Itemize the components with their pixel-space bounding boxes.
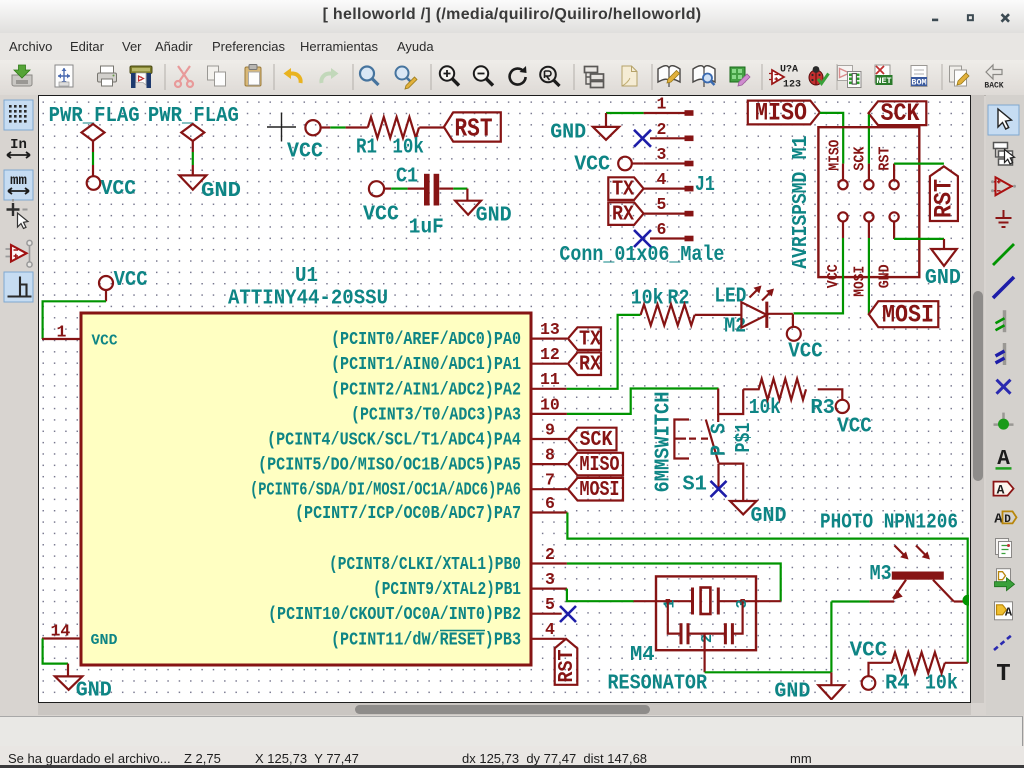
svg-text:2: 2 <box>545 545 555 564</box>
svg-text:5: 5 <box>545 595 555 614</box>
power port VCC (U1 pin 1) <box>99 269 148 301</box>
wire VCC to R1 <box>321 126 331 128</box>
svg-text:5: 5 <box>657 195 667 214</box>
svg-text:10k: 10k <box>749 397 781 420</box>
power port GND (J1 pin 1) <box>550 113 619 145</box>
U1 pin 12 PA1 <box>331 345 567 375</box>
global label SCK (U1 pin 9) <box>568 428 617 452</box>
wire (PWR_FLAG to GND) <box>192 152 194 165</box>
svg-text:4: 4 <box>657 170 667 189</box>
status bar <box>0 746 1024 765</box>
svg-text:VCC: VCC <box>101 178 137 201</box>
svg-text:10k: 10k <box>392 137 424 160</box>
wire R3 to VCC <box>818 389 843 400</box>
resonator M4 <box>608 576 757 695</box>
M1 pin VCC (bottom row) <box>825 212 848 288</box>
wire SCK label to M1 <box>868 115 870 164</box>
global label RST (U1 pin 4, vertical) <box>555 639 579 685</box>
J1 pin 4 <box>644 170 694 191</box>
U1 pin 11 PA2 <box>331 370 567 400</box>
svg-text:RST: RST <box>930 179 959 218</box>
svg-text:RESONATOR: RESONATOR <box>608 673 708 696</box>
U1 pin 13 PA0 <box>331 320 567 350</box>
svg-text:(PCINT0/AREF/ADC0)PA0: (PCINT0/AREF/ADC0)PA0 <box>331 329 521 350</box>
svg-text:10: 10 <box>540 395 560 414</box>
schematic canvas <box>38 95 971 703</box>
svg-text:(PCINT8/CLKI/XTAL1)PB0: (PCINT8/CLKI/XTAL1)PB0 <box>329 554 521 575</box>
wire M3 emitter to GND <box>831 602 869 673</box>
svg-text:VCC: VCC <box>850 640 888 663</box>
svg-text:(PCINT11/dW/RESET)PB3: (PCINT11/dW/RESET)PB3 <box>331 629 521 650</box>
svg-text:2: 2 <box>699 634 716 643</box>
global label SCK (top) <box>869 99 927 128</box>
svg-text:MISO: MISO <box>580 454 620 477</box>
wire R1 to RST label <box>419 126 444 128</box>
svg-text:SCK: SCK <box>852 147 869 171</box>
wire junction to R4 <box>945 662 968 664</box>
left toolbar <box>0 95 38 715</box>
resistor R1 10k <box>356 117 424 160</box>
U1 pin 10 PA3 <box>351 395 567 425</box>
power port VCC (J1 pin 3) <box>574 154 643 177</box>
power port VCC (under PWR_FLAG) <box>87 165 137 201</box>
svg-text:U?A: U?A <box>780 65 798 76</box>
svg-text:3: 3 <box>657 145 667 164</box>
mouse crosshair cursor <box>267 113 296 142</box>
svg-text:8: 8 <box>545 446 555 465</box>
U1 pin 14 GND <box>42 622 118 650</box>
J1 pin 6 <box>650 220 694 241</box>
IC U1 ATTINY44-20SSU body <box>81 265 531 665</box>
svg-text:VCC: VCC <box>574 154 610 177</box>
global label RX (J1 pin 5) <box>608 202 643 226</box>
svg-text:J1: J1 <box>695 174 715 197</box>
M1 pin GND (bottom row) <box>877 212 899 288</box>
svg-text:7: 7 <box>545 471 555 490</box>
svg-text:GND: GND <box>877 264 894 288</box>
global label RST (M1, vertical) <box>930 166 959 221</box>
resistor R3 10k <box>743 379 835 420</box>
U1 pin 3 PB1 <box>373 570 567 600</box>
no-connect X (U1 pin 5) <box>560 606 576 622</box>
svg-text:(PCINT1/AIN0/ADC1)PA1: (PCINT1/AIN0/ADC1)PA1 <box>331 354 521 375</box>
wire MISO label to M1 <box>820 113 843 164</box>
power port GND (S1) <box>730 501 787 528</box>
svg-text:T: T <box>996 661 1010 688</box>
wire S1 top to R3 <box>718 389 743 415</box>
power port GND (M1) <box>925 239 961 290</box>
wire R2 to LED M2 <box>695 314 742 316</box>
LED M2 <box>714 286 774 339</box>
svg-text:(PCINT9/XTAL2)PB1: (PCINT9/XTAL2)PB1 <box>373 579 521 600</box>
wire J1 pin1 to GND <box>606 112 644 114</box>
svg-text:VCC: VCC <box>825 264 842 288</box>
wire C1 to GND <box>439 188 453 190</box>
wire VCC to C1 <box>384 188 391 190</box>
svg-text:MISO: MISO <box>755 99 807 128</box>
wire U1 pin 2 to resonator pin 3 <box>567 564 781 602</box>
global label MOSI (M1) <box>869 301 939 330</box>
svg-text:R1: R1 <box>356 137 377 160</box>
power flag PWR_FLAG (VCC) <box>49 105 140 152</box>
svg-text:BACK: BACK <box>984 82 1003 91</box>
resonator pin 3 <box>718 599 780 609</box>
resonator crystal element <box>693 588 719 615</box>
wire M1 GND to GND <box>894 238 944 240</box>
svg-text:(PCINT6/SDA/DI/MOSI/OC1A/ADC6): (PCINT6/SDA/DI/MOSI/OC1A/ADC6)PA6 <box>250 480 521 501</box>
wire M1 RST to RST label <box>894 163 944 165</box>
svg-text:GND: GND <box>550 122 586 145</box>
U1 pin 9 PA4 <box>267 420 567 450</box>
wire U1 pin 14 to GND <box>43 639 68 664</box>
power port VCC (R3) <box>836 400 872 439</box>
svg-text:AVRISPSMD: AVRISPSMD <box>790 172 813 269</box>
svg-text:MOSI: MOSI <box>852 266 869 297</box>
M1 pin MISO (top row) <box>827 140 848 190</box>
wire U1 pin 10 to S1/R3 <box>567 389 719 414</box>
svg-text:GND: GND <box>91 632 118 649</box>
wire (PWR_FLAG to VCC) <box>92 152 94 165</box>
svg-text:GND: GND <box>751 505 787 528</box>
svg-text:P$1: P$1 <box>733 423 756 453</box>
svg-text:R4: R4 <box>885 673 910 696</box>
svg-text:13: 13 <box>540 320 560 339</box>
svg-text:VCC: VCC <box>114 269 148 292</box>
wire tool <box>993 244 1014 265</box>
resonator internal capacitors <box>668 601 743 644</box>
phototransistor M3 <box>870 546 954 602</box>
wire M1 VCC down to VCC port <box>794 238 844 313</box>
svg-text:GND: GND <box>76 680 112 701</box>
svg-text:1: 1 <box>57 323 67 342</box>
power port GND (C1) <box>455 189 511 228</box>
power port GND (under PWR_FLAG) <box>179 165 241 203</box>
global label RX (U1 pin 12) <box>568 352 601 376</box>
window title bar <box>0 0 1024 34</box>
svg-text:1uF: 1uF <box>409 217 444 240</box>
svg-text:3: 3 <box>545 570 555 589</box>
svg-text:ATTINY44-20SSU: ATTINY44-20SSU <box>228 288 388 311</box>
wire M1 MOSI down to MOSI label <box>868 238 870 314</box>
svg-text:U1: U1 <box>295 265 318 288</box>
J1 pin 5 <box>644 195 694 216</box>
no-connect X (J1 pin 6) <box>634 230 651 247</box>
capacitor C1 1uF <box>396 166 444 240</box>
svg-text:TX: TX <box>612 179 634 202</box>
global label MISO (top) <box>748 99 820 128</box>
U1 pin 6 PA7 <box>295 494 567 524</box>
svg-text:2: 2 <box>657 120 667 139</box>
power port VCC (R4) <box>850 640 888 690</box>
power port VCC (LED/M1) <box>787 327 823 364</box>
svg-text:6: 6 <box>657 220 667 239</box>
svg-text:Conn_01x06_Male: Conn_01x06_Male <box>559 244 724 267</box>
svg-text:RST: RST <box>877 147 894 171</box>
U1 pin 4 PB3 <box>331 620 565 650</box>
svg-text:(PCINT5/DO/MISO/OC1B/ADC5)PA5: (PCINT5/DO/MISO/OC1B/ADC5)PA5 <box>258 455 521 476</box>
svg-text:M4: M4 <box>630 644 655 667</box>
global label MOSI (U1 pin 7) <box>568 478 623 502</box>
svg-text:In: In <box>10 137 27 153</box>
svg-text:A: A <box>997 483 1005 498</box>
svg-text:VCC: VCC <box>788 341 823 364</box>
svg-text:GND: GND <box>774 681 810 701</box>
svg-text:MISO: MISO <box>827 140 844 171</box>
svg-text:4: 4 <box>545 620 555 639</box>
svg-text:12: 12 <box>540 345 560 364</box>
U1 pin 5 PB2 <box>268 595 562 625</box>
svg-text:GND: GND <box>476 205 512 228</box>
U1 pin 1 VCC <box>42 323 118 350</box>
scrollbars <box>971 95 984 703</box>
connector M1 AVRISPSMD body <box>790 127 919 277</box>
svg-text:GND: GND <box>201 180 241 203</box>
connector J1 Conn_01x06_Male <box>559 174 724 267</box>
svg-text:123: 123 <box>783 80 801 91</box>
svg-text:mm: mm <box>10 173 27 189</box>
svg-text:9: 9 <box>545 420 555 439</box>
global label MISO (U1 pin 8) <box>568 453 623 477</box>
svg-text:A: A <box>1005 605 1013 619</box>
U1 pin 7 PA6 <box>250 471 567 501</box>
switch S1 6MMSWITCH <box>653 392 757 497</box>
wire S1 bottom to GND <box>719 464 744 501</box>
svg-text:(PCINT3/T0/ADC3)PA3: (PCINT3/T0/ADC3)PA3 <box>351 404 521 425</box>
svg-text:6: 6 <box>545 494 555 513</box>
svg-text:GND: GND <box>925 267 961 290</box>
svg-text:(PCINT2/AIN1/ADC2)PA2: (PCINT2/AIN1/ADC2)PA2 <box>331 379 521 400</box>
svg-text:VCC: VCC <box>837 416 872 439</box>
svg-text:MOSI: MOSI <box>882 301 934 330</box>
power port VCC (C1 net) <box>363 181 399 226</box>
svg-text:P S: P S <box>709 423 732 456</box>
svg-text:S1: S1 <box>682 474 707 497</box>
power flag PWR_FLAG (GND) <box>148 105 239 152</box>
svg-text:D: D <box>1004 514 1011 526</box>
M1 pin SCK (top row) <box>852 147 874 190</box>
J1 pin 1 <box>644 95 694 116</box>
global label RST (R1) <box>444 112 501 143</box>
power port GND (resonator/M3) <box>774 672 844 703</box>
global label TX (U1 pin 13) <box>568 327 601 351</box>
resistor R2 10k <box>631 288 695 326</box>
U1 pin 2 PB0 <box>329 545 567 575</box>
wire R4 to VCC <box>869 663 892 677</box>
svg-text:TX: TX <box>579 329 601 352</box>
J1 pin 3 <box>644 145 694 166</box>
top toolbar <box>0 60 1024 96</box>
svg-text:6MMSWITCH: 6MMSWITCH <box>653 392 676 493</box>
wire U1 pin 6 to PHOTO net <box>567 513 967 663</box>
global label TX (J1 pin 4) <box>608 177 643 201</box>
svg-text:PHOTO NPN1206: PHOTO NPN1206 <box>820 512 958 535</box>
right toolbar <box>986 95 1024 715</box>
U1 pin 8 PA5 <box>258 446 567 476</box>
resonator pin 1 <box>634 599 693 609</box>
svg-text:(PCINT7/ICP/OC0B/ADC7)PA7: (PCINT7/ICP/OC0B/ADC7)PA7 <box>295 503 521 524</box>
svg-text:SCK: SCK <box>580 429 613 452</box>
svg-text:RST: RST <box>455 114 493 144</box>
svg-text:11: 11 <box>540 370 560 389</box>
svg-text:C1: C1 <box>396 166 418 189</box>
svg-text:1: 1 <box>661 599 678 608</box>
wire M3 collector to junction <box>954 600 968 602</box>
power port GND (U1 pin 14) <box>55 664 112 703</box>
menu bar <box>0 33 1024 60</box>
J1 pin 2 <box>650 120 694 141</box>
svg-text:1: 1 <box>657 97 667 114</box>
wire M3 emitter <box>870 600 894 602</box>
wire LED to VCC <box>767 313 793 315</box>
junction (right edge) <box>963 595 974 606</box>
svg-text:(PCINT4/USCK/SCL/T1/ADC4)PA4: (PCINT4/USCK/SCL/T1/ADC4)PA4 <box>267 430 521 451</box>
svg-text:RST: RST <box>556 650 579 683</box>
resistor R4 10k <box>885 652 958 695</box>
svg-text:MOSI: MOSI <box>580 479 620 502</box>
resonator pin 2 wire to GND <box>703 634 705 673</box>
svg-text:(PCINT10/CKOUT/OC0A/INT0)PB2: (PCINT10/CKOUT/OC0A/INT0)PB2 <box>268 604 521 625</box>
svg-text:NET: NET <box>876 76 891 86</box>
svg-text:VCC: VCC <box>92 333 118 350</box>
svg-text:RX: RX <box>579 354 601 377</box>
svg-text:RX: RX <box>612 204 634 227</box>
svg-text:M3: M3 <box>870 563 892 586</box>
wire VCC to U1 pin 1 <box>43 301 106 339</box>
svg-text:14: 14 <box>51 622 71 641</box>
wire U1 pin 11 to R2 <box>567 315 641 389</box>
svg-text:BOM: BOM <box>911 78 926 88</box>
svg-text:M1: M1 <box>790 135 813 159</box>
svg-text:VCC: VCC <box>287 141 323 164</box>
no-connect X (S1) <box>711 481 727 497</box>
wire U1 pin 3 to resonator pin 1 <box>567 589 634 602</box>
svg-text:VCC: VCC <box>363 204 399 227</box>
power port VCC (R1 net) <box>287 120 323 163</box>
M1 pin RST (top row) <box>877 147 899 190</box>
svg-text:SCK: SCK <box>881 99 920 128</box>
svg-text:R3: R3 <box>810 397 835 420</box>
no-connect X (J1 pin 2) <box>634 130 651 147</box>
M1 pin MOSI (bottom row) <box>852 212 874 296</box>
